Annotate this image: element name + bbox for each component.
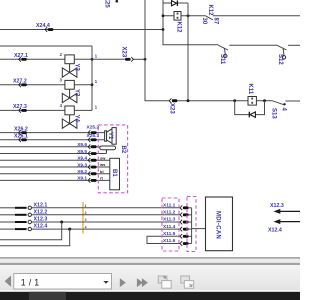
prev page button (5, 276, 11, 287)
connector X11.6 (163, 238, 189, 246)
connector X11.2 (163, 210, 189, 218)
wire X12.4 (0, 224, 180, 231)
svg-text:S11: S11 (219, 54, 225, 65)
cable marker (yellow) (82, 202, 84, 234)
wire X27.3 (0, 109, 66, 111)
arrow X12.3 (right) (270, 203, 300, 214)
wire Y2 out to rail and X23 (75, 58, 125, 60)
X11 mating housing dashed (187, 197, 196, 252)
wire X12.2 (0, 209, 180, 216)
valve Y4 body (62, 115, 79, 129)
sensor B1 box (110, 158, 120, 190)
svg-text:Y4: Y4 (74, 115, 80, 123)
svg-text:3: 3 (85, 218, 87, 222)
svg-text:X9.5: X9.5 (77, 149, 87, 155)
bus wire at connector outputs (189, 208, 192, 244)
arrow X12.4 (right) (268, 219, 300, 233)
svg-text:X11.1: X11.1 (163, 203, 176, 209)
svg-text:MDI-CAN: MDI-CAN (215, 211, 221, 239)
horn Y1 (105, 128, 117, 145)
svg-text:bl: bl (100, 169, 104, 174)
K12 diode top wire (163, 2, 188, 4)
connector X26.2 (14, 126, 28, 135)
valve Y3 body (62, 89, 79, 103)
svg-text:Y2: Y2 (74, 64, 80, 72)
wire Y3 out (75, 84, 92, 86)
diode V11 loop (235, 101, 265, 118)
K12 coil wire (163, 15, 206, 17)
svg-text:87: 87 (212, 18, 218, 25)
svg-text:1 / 1: 1 / 1 (21, 278, 40, 288)
svg-text:X9.6: X9.6 (77, 142, 87, 148)
connector X27.3 (13, 104, 27, 113)
wire S11-S12 (229, 44, 277, 46)
jumper X11.5/X11.6 (147, 236, 180, 243)
svg-text:X23: X23 (168, 103, 174, 114)
svg-text:4: 4 (85, 225, 87, 229)
svg-text:X9.1: X9.1 (77, 176, 87, 182)
wire S12 to edge (288, 44, 300, 46)
wire X26.2 / X25.2 to horn (0, 132, 105, 134)
svg-text:X9.3: X9.3 (77, 162, 87, 168)
valve Y4 coil box (65, 106, 74, 115)
node top edge (116, 0, 119, 3)
X11 plug housing dashed (162, 198, 179, 251)
svg-text:X12.2: X12.2 (34, 209, 48, 215)
valve Y2 body (62, 64, 79, 78)
svg-text:B2: B2 (120, 146, 126, 154)
connector X9.2 (77, 169, 103, 176)
node K11 right (263, 99, 266, 102)
svg-text:sw: sw (100, 155, 106, 160)
wire Y4 out (75, 109, 92, 111)
node K12 left (162, 14, 165, 17)
svg-text:X12.3: X12.3 (34, 217, 48, 223)
buzzer B2 (100, 146, 126, 154)
wire X12.4 branch to left (0, 229, 70, 246)
connector X27.1 (14, 53, 28, 62)
page number input (14, 274, 112, 290)
switch S12 (277, 45, 287, 65)
svg-text:X24.4: X24.4 (36, 23, 50, 29)
switch S13 (270, 101, 300, 120)
relay coil K12 (174, 12, 181, 34)
svg-text:2: 2 (85, 211, 87, 215)
wire X27.2 (0, 84, 66, 86)
wire X9.5 to B2 stem (0, 153, 106, 155)
left long vertical (feed to bottom row) (145, 0, 169, 101)
svg-text:Y1: Y1 (107, 132, 113, 140)
node K12 right (187, 14, 190, 17)
wire X27.1 (0, 58, 66, 60)
svg-text:X12.4: X12.4 (268, 228, 282, 234)
svg-text:1: 1 (85, 204, 87, 208)
svg-text:X23: X23 (121, 47, 127, 58)
svg-text:X26.2: X26.2 (14, 126, 28, 132)
svg-text:ws: ws (99, 162, 106, 167)
svg-text:30: 30 (201, 18, 207, 25)
wire X12.1 (0, 202, 180, 209)
connector X24.4 (36, 23, 53, 32)
wire X9.4 sw (0, 159, 110, 161)
wire X9.2 bl (0, 173, 110, 175)
taskbar strip (0, 292, 300, 300)
last page button (137, 278, 148, 287)
svg-text:X25.1: X25.1 (87, 133, 100, 139)
connector X9.4 (77, 155, 106, 162)
svg-text:X27.3: X27.3 (13, 104, 27, 110)
wire valve supply (y46) (0, 45, 92, 47)
svg-text:X11.2: X11.2 (163, 210, 176, 216)
K12 left vertical (163, 0, 218, 45)
svg-text:X11.4: X11.4 (163, 224, 176, 230)
svg-text:X11.5: X11.5 (163, 231, 176, 237)
connector X9.5 (77, 149, 96, 156)
svg-text:B1: B1 (111, 169, 117, 177)
node K12 rail / bottom wire (187, 99, 190, 102)
wire X12.3 branch to left (0, 222, 62, 240)
svg-text:X11.3: X11.3 (163, 217, 176, 223)
wire valve rail vertical (91, 46, 93, 110)
svg-text:S12: S12 (277, 54, 283, 65)
node X12.3 branch (60, 221, 63, 224)
viewer scrollbar (0, 257, 300, 258)
next page button (120, 278, 126, 287)
node X24.4/S11 feed (162, 28, 165, 31)
previous view icon (disabled) (158, 276, 171, 288)
svg-text:X12.1: X12.1 (34, 202, 48, 208)
wire X9.3 ws (0, 166, 110, 168)
wire X9.6 to B2 (0, 146, 100, 148)
connector X11.5 (163, 231, 189, 239)
node rail-Y3 (91, 83, 94, 86)
svg-text:X12.3: X12.3 (270, 203, 284, 209)
connector X23 (bottom) (168, 98, 177, 114)
enclosure dashed box B1/B2/Y1 (98, 125, 127, 193)
wire X26.1 / X25.1 to horn (0, 139, 105, 141)
svg-text:K12: K12 (175, 22, 181, 34)
connector X11.1 (163, 203, 189, 211)
node X12.4 branch (68, 228, 71, 231)
connector X25.2 (87, 125, 100, 135)
svg-text:X25: X25 (104, 0, 110, 8)
svg-text:X12.4: X12.4 (34, 224, 48, 230)
node rail-Y2 (91, 58, 94, 61)
svg-text:X25.2: X25.2 (87, 125, 100, 131)
diode V12 (172, 0, 178, 6)
node K11 left (233, 99, 236, 102)
connector X26.1 (14, 134, 28, 143)
valve Y3 coil box (65, 80, 74, 89)
svg-text:K12: K12 (207, 5, 213, 17)
connector X9.3 (77, 162, 106, 169)
svg-text:X11.6: X11.6 (163, 238, 176, 244)
wire X24.4 net (top horizontal) (0, 29, 163, 31)
MDI-CAN module (206, 197, 233, 251)
connector X9.1 (77, 176, 103, 183)
connector X27.2 (13, 79, 27, 88)
connector X25.1 (87, 133, 100, 142)
relay coil K11 (247, 84, 256, 106)
connector X23 (on Y2 wire) (121, 47, 134, 62)
svg-text:K11: K11 (247, 84, 253, 95)
switch S11 (218, 45, 228, 65)
svg-text:Y3: Y3 (74, 89, 80, 97)
wire X9.1 rt (0, 179, 110, 181)
svg-text:S13: S13 (270, 108, 276, 119)
wire K11 to S13 (256, 100, 272, 102)
svg-text:X9.2: X9.2 (77, 169, 87, 175)
valve Y2 coil box (65, 55, 74, 64)
contact K12 30/87 (201, 5, 300, 25)
cable core numbers (85, 204, 87, 229)
connector X9.6 (77, 142, 96, 149)
wire X12.3 (0, 217, 180, 224)
svg-text:X27.1: X27.1 (14, 53, 28, 59)
next view icon (disabled) (181, 276, 194, 288)
K12 right vertical (187, 3, 189, 101)
svg-text:X27.2: X27.2 (13, 79, 27, 85)
svg-text:X26.1: X26.1 (14, 134, 28, 140)
node Y2-feed (144, 58, 147, 61)
svg-text:X9.4: X9.4 (77, 156, 87, 162)
wire bus to MDI-CAN (192, 228, 206, 230)
connector X11.4 (163, 224, 189, 232)
bottom main wire with connector X23 (177, 100, 247, 102)
connector X11.3 (163, 217, 189, 225)
